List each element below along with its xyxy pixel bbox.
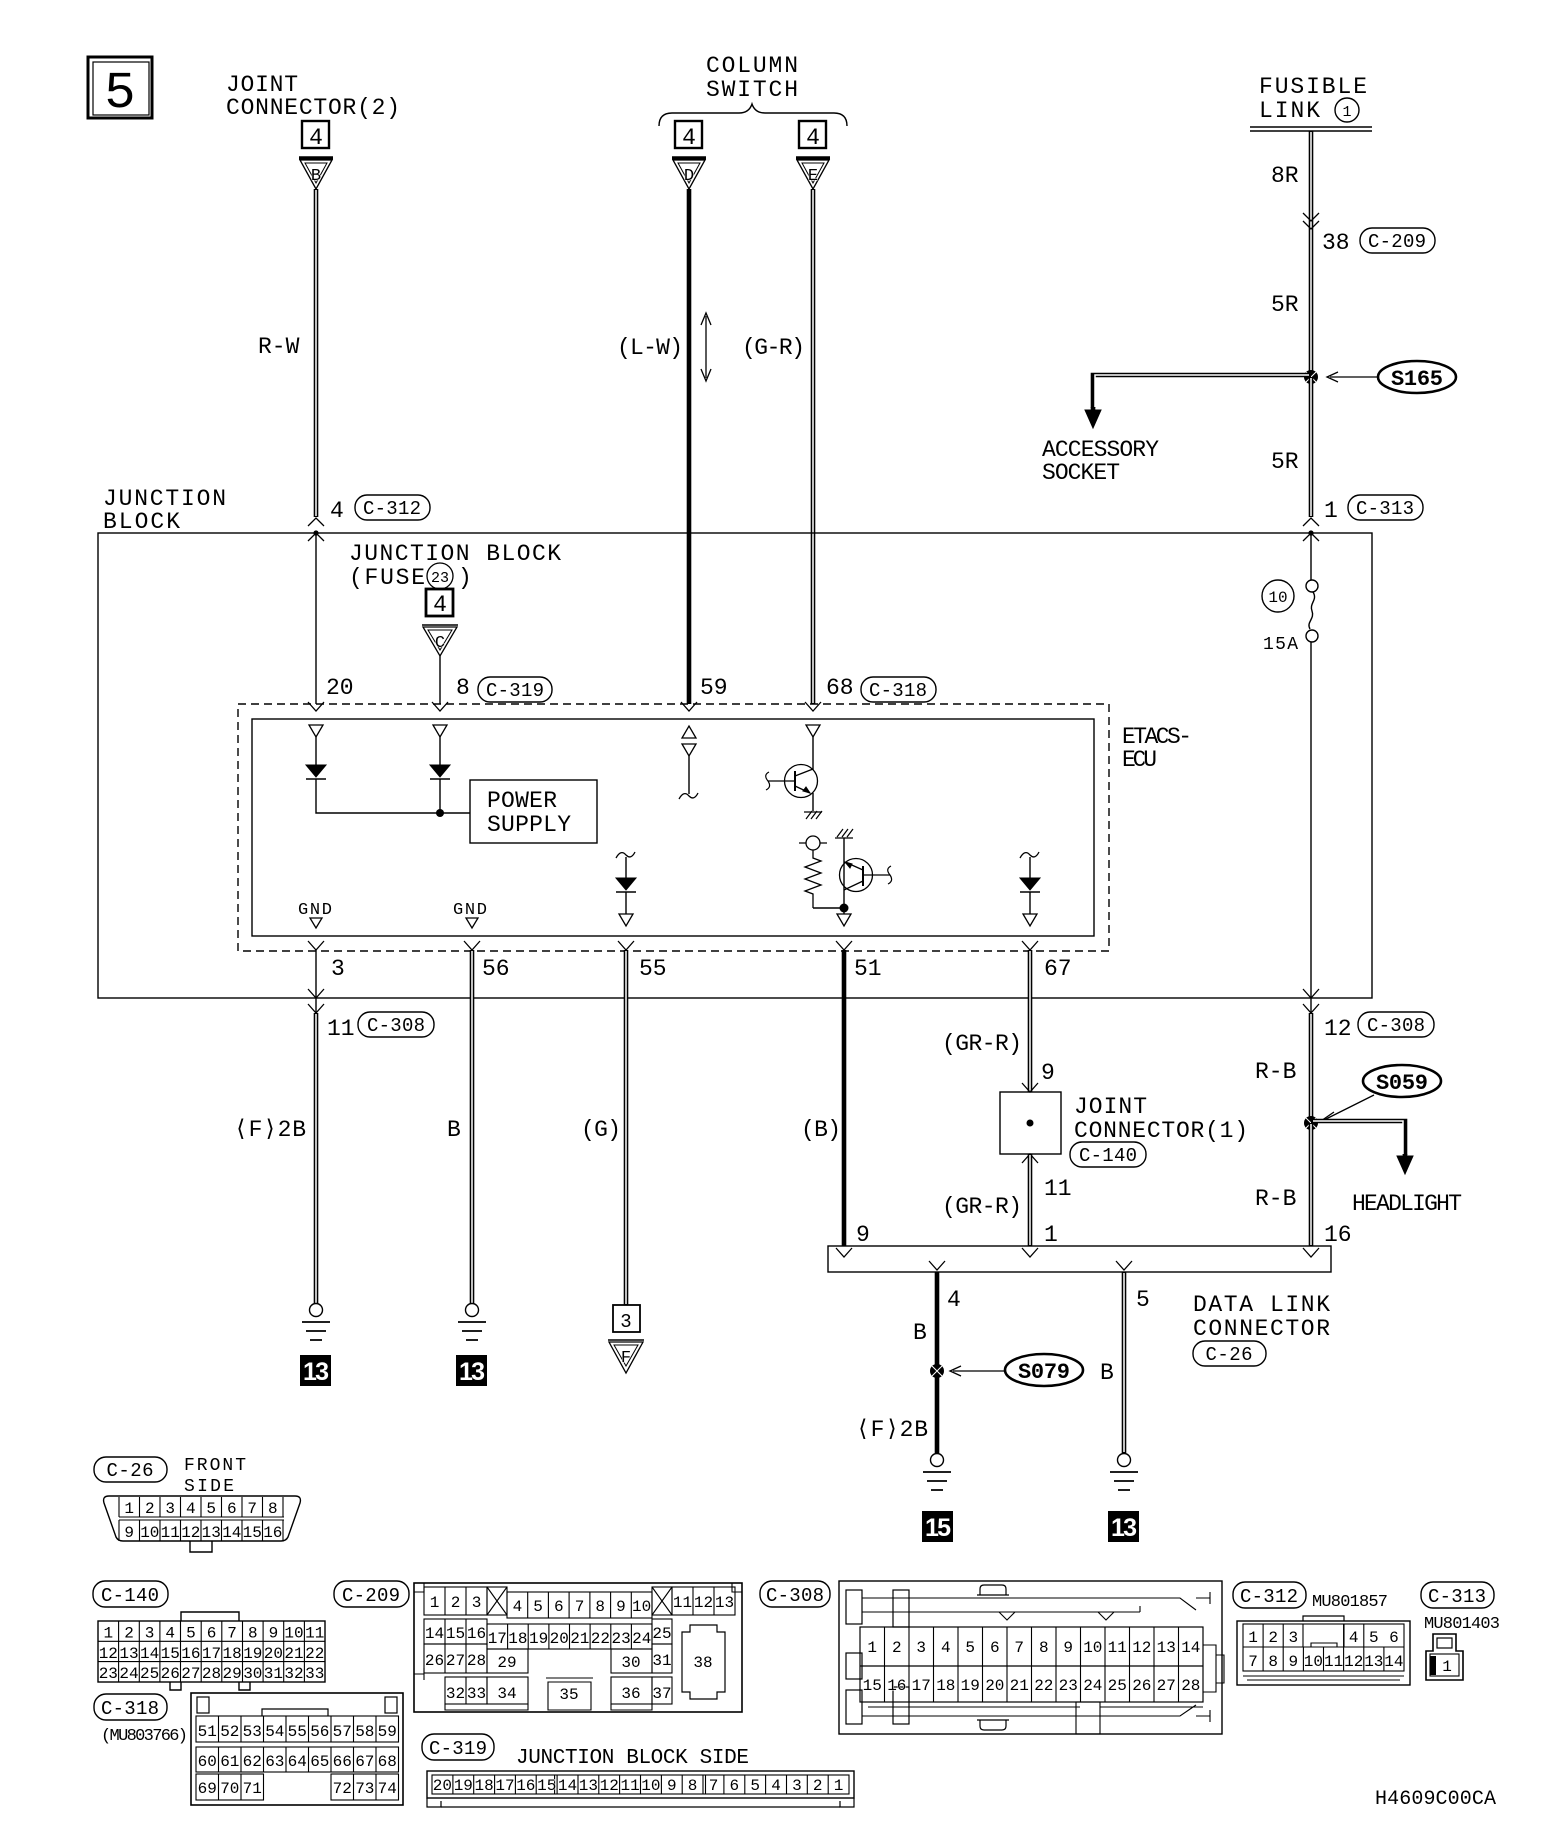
svg-text:17: 17: [488, 1630, 507, 1648]
svg-text:13: 13: [1157, 1639, 1176, 1657]
svg-text:60: 60: [198, 1753, 217, 1771]
pin 51 exit chevron: [836, 941, 852, 950]
svg-text:FUSIBLE: FUSIBLE: [1259, 74, 1367, 100]
splice label S059: [1321, 1065, 1441, 1121]
svg-text:5: 5: [533, 1598, 543, 1616]
svg-text:73: 73: [355, 1780, 374, 1798]
svg-text:R-B: R-B: [1255, 1186, 1296, 1212]
svg-text:2: 2: [145, 1500, 155, 1518]
svg-text:10: 10: [1304, 1653, 1323, 1671]
svg-text:15A: 15A: [1263, 635, 1298, 655]
svg-text:6: 6: [729, 1777, 739, 1795]
svg-text:21: 21: [284, 1645, 303, 1663]
svg-text:10: 10: [641, 1777, 660, 1795]
svg-text:8: 8: [456, 675, 470, 701]
svg-text:29: 29: [222, 1665, 241, 1683]
svg-text:C-308: C-308: [1367, 1015, 1425, 1037]
svg-text:23: 23: [99, 1665, 118, 1683]
ground G2: [458, 1304, 486, 1341]
svg-text:31: 31: [264, 1665, 283, 1683]
svg-text:C-140: C-140: [1079, 1145, 1137, 1167]
svg-text:B: B: [913, 1320, 927, 1346]
diode D3 (hatched): [1020, 878, 1040, 892]
pin 3 gnd triangle: [310, 918, 322, 928]
svg-text:1: 1: [1044, 1222, 1058, 1248]
svg-text:8: 8: [268, 1500, 278, 1518]
svg-text:24: 24: [119, 1665, 138, 1683]
svg-text:19: 19: [243, 1645, 262, 1663]
svg-text:17: 17: [202, 1645, 221, 1663]
svg-text:4: 4: [806, 125, 820, 151]
svg-text:68: 68: [826, 675, 854, 701]
svg-text:4: 4: [682, 125, 696, 151]
svg-text:32: 32: [446, 1685, 465, 1703]
svg-text:13: 13: [119, 1645, 138, 1663]
svg-text:14: 14: [1384, 1653, 1403, 1671]
diode D4 (hatched): [616, 878, 636, 892]
svg-text:JUNCTION BLOCK SIDE: JUNCTION BLOCK SIDE: [516, 1747, 749, 1770]
svg-text:25: 25: [652, 1625, 671, 1643]
wire R-B lower to data link: [1309, 1123, 1314, 1246]
diode D1 (hatched): [306, 765, 326, 779]
svg-text:1: 1: [1442, 1658, 1452, 1676]
pin label 12 (C-308): [1324, 1012, 1434, 1042]
svg-text:C-308: C-308: [766, 1585, 824, 1607]
pin label 11 (C-308): [327, 1012, 434, 1042]
svg-text:JUNCTION BLOCK: JUNCTION BLOCK: [349, 541, 561, 567]
label DATA LINK CONNECTOR (C-26): [1193, 1292, 1330, 1366]
pin 11 chevron below border: [308, 1004, 324, 1013]
data link pin 9 chevron: [836, 1248, 852, 1257]
svg-text:B: B: [1100, 1360, 1114, 1386]
pin 20 entry chevron: [308, 702, 324, 711]
svg-text:7: 7: [1248, 1653, 1258, 1671]
svg-text:19: 19: [454, 1777, 473, 1795]
svg-text:C-312: C-312: [1240, 1586, 1298, 1608]
joint connector entry chevron: [1022, 1083, 1038, 1092]
svg-text:11: 11: [673, 1594, 692, 1612]
svg-text:(L-W): (L-W): [617, 335, 683, 361]
label ETACS-ECU: [1122, 724, 1192, 773]
svg-text:CONNECTOR(2): CONNECTOR(2): [226, 95, 400, 121]
svg-text:3: 3: [916, 1639, 926, 1657]
pin chevron wire B end: [308, 518, 324, 526]
svg-text:25: 25: [1108, 1677, 1127, 1695]
svg-text:10: 10: [140, 1524, 159, 1542]
svg-text:⟨F⟩2B: ⟨F⟩2B: [856, 1417, 928, 1443]
pin 55 output triangle: [619, 914, 633, 926]
ground ref box 13 (second): [456, 1355, 487, 1386]
svg-text:37: 37: [652, 1685, 671, 1703]
wire 51 (B) to data link connector: [842, 950, 847, 1246]
svg-text:3: 3: [620, 1311, 631, 1333]
fuse 10 15A: [1262, 580, 1318, 655]
wire pin8 to diode: [439, 737, 441, 765]
svg-text:12: 12: [99, 1645, 118, 1663]
pin 56 exit chevron: [464, 941, 480, 950]
svg-text:(B): (B): [801, 1117, 841, 1143]
svg-text:11: 11: [1324, 1653, 1343, 1671]
fuse 23 connector 4 box: [426, 589, 453, 618]
pin 56 gnd triangle: [466, 918, 478, 928]
pin 67 exit chevron: [1022, 941, 1038, 950]
svg-text:38: 38: [1322, 230, 1350, 256]
pin label 1 (C-313): [1324, 495, 1423, 524]
svg-text:4: 4: [186, 1500, 196, 1518]
svg-text:34: 34: [497, 1685, 516, 1703]
svg-text:53: 53: [243, 1723, 262, 1741]
svg-text:5: 5: [965, 1639, 975, 1657]
svg-text:H4609C00CA: H4609C00CA: [1375, 1788, 1496, 1811]
svg-text:65: 65: [310, 1753, 329, 1771]
wire from pin 1 through fuse to pin 12: [1310, 533, 1312, 998]
pin 8 input triangle: [433, 725, 447, 737]
svg-text:14: 14: [222, 1524, 241, 1542]
svg-text:4: 4: [1349, 1629, 1359, 1647]
wire from pin 4 into block to ETACS pin 20: [315, 533, 317, 704]
pin label 4 (C-312): [330, 495, 430, 524]
connector triangle D: [672, 158, 706, 189]
wire Q1 emitter to internal ground: [812, 793, 814, 811]
svg-text:S059: S059: [1376, 1071, 1428, 1096]
svg-text:26: 26: [425, 1652, 444, 1670]
svg-text:3: 3: [165, 1500, 175, 1518]
svg-text:S165: S165: [1391, 367, 1443, 392]
label FUSIBLE LINK 1: [1259, 74, 1367, 124]
svg-text:7: 7: [227, 1625, 237, 1643]
updown arrow between L-W and G-R: [701, 313, 711, 381]
svg-text:27: 27: [1157, 1677, 1176, 1695]
svg-text:10: 10: [1083, 1639, 1102, 1657]
wire from triangle C to ETACS pin 8: [439, 656, 441, 704]
svg-text:1: 1: [1342, 104, 1351, 121]
svg-text:12: 12: [600, 1777, 619, 1795]
svg-text:18: 18: [508, 1630, 527, 1648]
label JOINT CONNECTOR(1): [1070, 1094, 1248, 1167]
wire diode D3 to pin 67 triangle: [1029, 892, 1031, 914]
svg-text:LINK: LINK: [1259, 98, 1320, 124]
svg-text:55: 55: [288, 1723, 307, 1741]
svg-text:33: 33: [305, 1665, 324, 1683]
svg-text:55: 55: [639, 956, 667, 982]
wire B pin5 down to ground G4: [1122, 1272, 1127, 1453]
brace under column switch: [659, 104, 847, 126]
accessory socket arrowhead: [1085, 410, 1101, 428]
diode D2 (hatched): [430, 765, 450, 779]
svg-text:COLUMN: COLUMN: [706, 53, 798, 79]
svg-text:GND: GND: [298, 901, 332, 920]
svg-text:18: 18: [936, 1677, 955, 1695]
svg-text:5: 5: [750, 1777, 760, 1795]
pin 3 border chevron: [308, 989, 324, 998]
label COLUMN SWITCH: [706, 53, 798, 103]
ground G4: [1110, 1454, 1138, 1491]
svg-text:6: 6: [990, 1639, 1000, 1657]
splice S059 dot: [1304, 1116, 1318, 1130]
svg-text:1: 1: [867, 1639, 877, 1657]
svg-text:16: 16: [263, 1524, 282, 1542]
wire B pin4 down to ground G3: [935, 1272, 940, 1453]
svg-text:23: 23: [1059, 1677, 1078, 1695]
svg-text:9: 9: [124, 1524, 134, 1542]
svg-text:C: C: [435, 634, 445, 653]
svg-text:18: 18: [222, 1645, 241, 1663]
svg-text:C-319: C-319: [486, 680, 544, 702]
connector box 3: [613, 1305, 640, 1333]
svg-text:1: 1: [834, 1777, 844, 1795]
splice S079 dot: [930, 1364, 944, 1378]
wire segment 12 stub: [1310, 998, 1312, 1013]
svg-text:9: 9: [1063, 1639, 1073, 1657]
svg-text:8: 8: [1039, 1639, 1049, 1657]
svg-text:28: 28: [202, 1665, 221, 1683]
svg-text:58: 58: [355, 1723, 374, 1741]
svg-text:28: 28: [1181, 1677, 1200, 1695]
connector 4 box (joint connector 2): [302, 121, 329, 151]
svg-text:15: 15: [161, 1645, 180, 1663]
svg-text:18: 18: [474, 1777, 493, 1795]
page number box 5: [88, 57, 152, 123]
svg-text:1: 1: [124, 1500, 134, 1518]
svg-text:27: 27: [181, 1665, 200, 1683]
svg-text:20: 20: [264, 1645, 283, 1663]
svg-text:CONNECTOR(1): CONNECTOR(1): [1074, 1118, 1248, 1144]
svg-text:23: 23: [611, 1630, 630, 1648]
wire diode D4 to pin 55 triangle: [625, 892, 627, 914]
svg-text:C-209: C-209: [342, 1585, 400, 1607]
pin 3 exit chevron: [308, 941, 324, 950]
connector 4 box (column switch E): [799, 121, 826, 151]
svg-text:51: 51: [854, 956, 882, 982]
svg-text:C-318: C-318: [869, 680, 927, 702]
pin 67 curl open end: [1020, 852, 1039, 858]
svg-text:13: 13: [715, 1594, 734, 1612]
label JUNCTION BLOCK (FUSE 23): [349, 541, 561, 591]
pin 51 output triangle: [837, 914, 851, 926]
svg-text:26: 26: [161, 1665, 180, 1683]
svg-text:1: 1: [430, 1594, 440, 1612]
svg-text:(GR-R): (GR-R): [942, 1031, 1022, 1057]
svg-text:R-W: R-W: [258, 334, 300, 360]
svg-text:61: 61: [220, 1753, 239, 1771]
svg-text:S079: S079: [1018, 1360, 1070, 1385]
svg-text:28: 28: [467, 1652, 486, 1670]
transistor Q1: [766, 765, 818, 798]
svg-text:21: 21: [1010, 1677, 1029, 1695]
svg-text:F: F: [621, 1349, 631, 1368]
svg-text:8: 8: [688, 1777, 698, 1795]
svg-text:12: 12: [1132, 1639, 1151, 1657]
svg-text:5R: 5R: [1271, 449, 1299, 475]
svg-text:4: 4: [771, 1777, 781, 1795]
svg-text:C-313: C-313: [1428, 1586, 1486, 1608]
svg-text:56: 56: [482, 956, 510, 982]
svg-text:20: 20: [550, 1630, 569, 1648]
svg-text:1: 1: [1248, 1629, 1258, 1647]
ETACS-ECU inner box: [252, 719, 1094, 936]
svg-text:13: 13: [579, 1777, 598, 1795]
wire (G-R) column switch E down to ETACS pin 68: [811, 189, 816, 704]
svg-text:C-313: C-313: [1356, 498, 1414, 520]
splice label S079: [950, 1354, 1083, 1386]
wire from S165 to accessory socket: [1093, 375, 1311, 412]
connector C-308 pinout: [760, 1581, 1224, 1734]
wire (GR-R) joint connector to data link: [1028, 1154, 1033, 1246]
wire pin20 to diode: [315, 737, 317, 765]
svg-text:20: 20: [326, 675, 354, 701]
svg-text:C-26: C-26: [107, 1460, 154, 1482]
svg-text:22: 22: [1034, 1677, 1053, 1695]
node label 38 (C-209): [1322, 228, 1435, 256]
svg-text:63: 63: [265, 1753, 284, 1771]
svg-text:11: 11: [1108, 1639, 1127, 1657]
svg-text:13: 13: [1364, 1653, 1383, 1671]
svg-text:5R: 5R: [1271, 292, 1299, 318]
svg-text:6: 6: [207, 1625, 217, 1643]
svg-text:23: 23: [431, 570, 449, 587]
data link connector box: [828, 1246, 1331, 1272]
svg-text:67: 67: [355, 1753, 374, 1771]
svg-text:14: 14: [1181, 1639, 1200, 1657]
internal ground Q1: [804, 811, 822, 819]
svg-text:9: 9: [667, 1777, 677, 1795]
open end curl pin 59: [679, 793, 698, 799]
svg-text:54: 54: [265, 1723, 284, 1741]
svg-text:C-312: C-312: [363, 498, 421, 520]
svg-text:3: 3: [331, 956, 345, 982]
svg-text:7: 7: [247, 1500, 257, 1518]
ground G1: [302, 1304, 330, 1341]
svg-text:9: 9: [616, 1598, 626, 1616]
svg-text:21: 21: [570, 1630, 589, 1648]
pin 55 exit chevron: [618, 941, 634, 950]
svg-text:62: 62: [243, 1753, 262, 1771]
svg-text:22: 22: [591, 1630, 610, 1648]
svg-text:3: 3: [1288, 1629, 1298, 1647]
svg-text:13: 13: [202, 1524, 221, 1542]
svg-text:12: 12: [1324, 1016, 1352, 1042]
pin 68 label (C-318): [826, 675, 936, 702]
svg-text:5: 5: [104, 64, 135, 123]
svg-text:30: 30: [243, 1665, 262, 1683]
label JOINT CONNECTOR(2): [226, 72, 400, 121]
svg-text:FRONT: FRONT: [184, 1456, 246, 1476]
svg-text:B: B: [311, 167, 321, 186]
svg-text:8: 8: [1268, 1653, 1278, 1671]
svg-text:12: 12: [181, 1524, 200, 1542]
data link pin 4 chevron: [929, 1261, 945, 1270]
svg-text:10: 10: [284, 1625, 303, 1643]
wire 56 B down to ground G2: [470, 950, 475, 1304]
svg-text:R-B: R-B: [1255, 1059, 1296, 1085]
data link pin 16 chevron: [1303, 1248, 1319, 1257]
svg-text:22: 22: [305, 1645, 324, 1663]
label ACCESSORY SOCKET: [1042, 437, 1159, 486]
svg-text:16: 16: [467, 1625, 486, 1643]
svg-text:35: 35: [559, 1686, 578, 1704]
svg-text:JOINT: JOINT: [1074, 1094, 1147, 1120]
connector C-26 pinout: [94, 1456, 300, 1552]
svg-text:8: 8: [248, 1625, 258, 1643]
svg-text:59: 59: [378, 1723, 397, 1741]
wire (F)2B down to ground G1: [314, 1013, 319, 1304]
svg-text:24: 24: [632, 1630, 651, 1648]
svg-text:6: 6: [554, 1598, 564, 1616]
svg-text:4: 4: [165, 1625, 175, 1643]
svg-text:5: 5: [1136, 1287, 1150, 1313]
svg-text:3: 3: [472, 1594, 482, 1612]
wire diode D1 to power supply rail: [316, 779, 470, 813]
pin 1 chevron at junction block border: [1303, 533, 1319, 541]
svg-text:MU801403: MU801403: [1424, 1615, 1500, 1634]
svg-text:DATA LINK: DATA LINK: [1193, 1292, 1330, 1318]
svg-text:C-140: C-140: [101, 1585, 159, 1607]
pin 59 input triangle up: [682, 726, 696, 738]
svg-text:11: 11: [305, 1625, 324, 1643]
svg-text:1: 1: [1324, 498, 1338, 524]
pin 12 chevron below border: [1303, 1004, 1319, 1013]
svg-text:74: 74: [378, 1780, 397, 1798]
svg-text:5: 5: [1369, 1629, 1379, 1647]
wire diode D2 to rail: [439, 779, 441, 813]
pin 59 entry chevron: [681, 702, 697, 711]
internal ground Q2 top: [835, 829, 853, 838]
connector C-140 pinout: [93, 1581, 325, 1690]
data link pin 5 chevron: [1116, 1261, 1132, 1270]
pin chevron wire 1 end: [1303, 518, 1319, 526]
junction dot rail: [436, 809, 444, 817]
svg-text:16: 16: [1324, 1222, 1352, 1248]
svg-text:2: 2: [124, 1625, 134, 1643]
joint connector exit chevron: [1022, 1154, 1038, 1163]
wire pin 55 internal: [625, 857, 627, 878]
svg-text:C-319: C-319: [429, 1738, 487, 1760]
svg-text:16: 16: [887, 1677, 906, 1695]
pin 55 curl open end: [616, 852, 635, 858]
svg-text:17: 17: [495, 1777, 514, 1795]
junction dot Q2 node: [840, 904, 849, 913]
wire node to pin 51 triangle: [843, 908, 845, 914]
splice S165 dot: [1304, 370, 1318, 384]
svg-text:32: 32: [284, 1665, 303, 1683]
svg-text:8R: 8R: [1271, 163, 1299, 189]
svg-text:14: 14: [140, 1645, 159, 1663]
svg-text:13: 13: [1111, 1514, 1137, 1542]
connector C-312 pinout: [1233, 1582, 1410, 1685]
svg-text:16: 16: [181, 1645, 200, 1663]
svg-text:13: 13: [303, 1358, 329, 1386]
wire pin3 to junction block border: [315, 950, 317, 998]
svg-text:12: 12: [1344, 1653, 1363, 1671]
svg-text:3: 3: [792, 1777, 802, 1795]
svg-text:38: 38: [693, 1654, 712, 1672]
svg-text:GND: GND: [453, 901, 487, 920]
svg-text:10: 10: [632, 1598, 651, 1616]
svg-text:7: 7: [709, 1777, 719, 1795]
svg-text:15: 15: [243, 1524, 262, 1542]
ground ref box 13 (left): [300, 1355, 331, 1386]
fusible link bus bar: [1250, 127, 1372, 131]
connector 4 box (column switch D): [675, 121, 702, 151]
svg-text:68: 68: [378, 1753, 397, 1771]
svg-text:11: 11: [327, 1016, 355, 1042]
svg-text:4: 4: [941, 1639, 951, 1657]
pin 8 entry chevron: [432, 702, 448, 711]
svg-text:5: 5: [186, 1625, 196, 1643]
svg-text:9: 9: [269, 1625, 279, 1643]
pin 20 input triangle: [309, 725, 323, 737]
svg-text:12: 12: [694, 1594, 713, 1612]
